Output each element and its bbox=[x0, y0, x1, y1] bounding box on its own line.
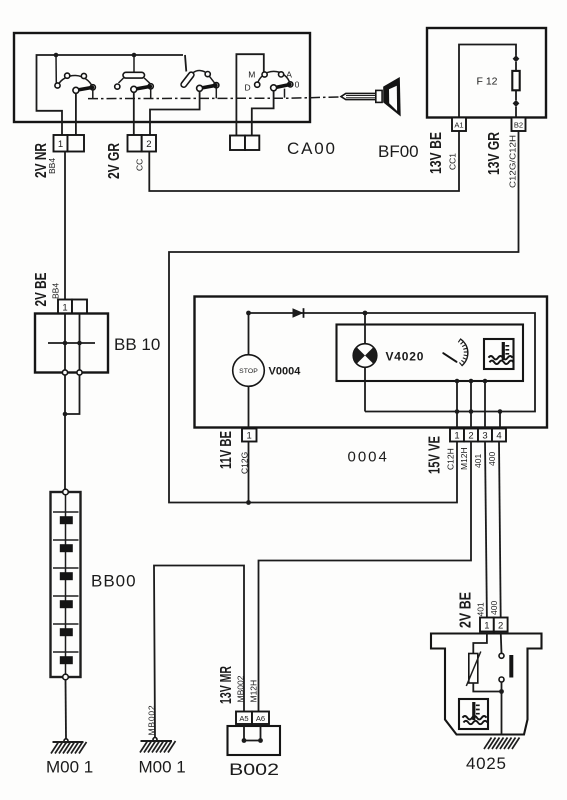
node on bus above switch 2 bbox=[132, 53, 137, 58]
svg-text:CA00: CA00 bbox=[287, 139, 337, 158]
switch S3 pivot bbox=[197, 85, 203, 91]
switch S3 contact circles bbox=[205, 72, 219, 88]
svg-text:2V BE: 2V BE bbox=[458, 592, 475, 628]
0004 connector pin 1 (single) bbox=[242, 429, 257, 442]
switch S4 pivot wire to connector bbox=[252, 91, 274, 136]
wire 400 from 0004 pin 4 to 4025 pin 2 bbox=[499, 442, 501, 618]
connector cell 2 (CA00 pin 2) bbox=[142, 135, 156, 152]
wire 11V BE from 0004 pin 1 to junction bbox=[248, 442, 250, 503]
key bow hole bbox=[389, 86, 397, 111]
4025 connector pin 2 bbox=[494, 618, 508, 632]
fuse lower lead bbox=[515, 90, 517, 100]
BF00 internal frame bbox=[459, 45, 516, 118]
thermistor lower lead bbox=[473, 683, 501, 692]
wire BB10 to BB00 bbox=[65, 375, 80, 489]
B002 internal stubs bbox=[244, 724, 261, 741]
svg-text:1: 1 bbox=[247, 431, 252, 442]
diode D1 bbox=[293, 308, 304, 318]
gauge scale ticks bbox=[458, 339, 468, 366]
junction nodes on internal wire bbox=[455, 409, 460, 414]
svg-text:M12H: M12H bbox=[249, 680, 259, 703]
svg-text:A5: A5 bbox=[239, 714, 248, 723]
thermistor diagonal arrow bbox=[466, 652, 481, 687]
battery junction box BB10 bbox=[35, 314, 108, 373]
switch contact lower bbox=[499, 677, 504, 682]
coolant temperature sensor 4025 body bbox=[431, 634, 542, 735]
fuse box BF00 bbox=[427, 28, 546, 118]
switch S3 pivot wire to connector 2 bbox=[150, 91, 200, 135]
wire 401 from 0004 pin 3 to 4025 pin 1 bbox=[485, 442, 487, 618]
svg-text:1: 1 bbox=[62, 303, 67, 314]
svg-text:A1: A1 bbox=[454, 120, 463, 129]
svg-text:B002: B002 bbox=[229, 760, 279, 779]
4025 pin 1 internal wire to thermistor bbox=[473, 632, 487, 654]
4025 coolant temperature icon box bbox=[459, 699, 488, 729]
gauge scale arc bbox=[460, 339, 468, 366]
switch S3 contact arc bbox=[193, 71, 216, 86]
ground M001 (second) wire MB002 bbox=[154, 566, 244, 740]
wire 13V GR from B2 to 0004 connectors bbox=[169, 131, 519, 503]
switch S2 feed wire bbox=[133, 55, 135, 72]
thermometer ticks bbox=[505, 346, 509, 354]
connector cell 1 (CA00 pin 1) bbox=[54, 135, 68, 152]
junction node on C12G/C12H wire bbox=[246, 500, 251, 505]
svg-text:2: 2 bbox=[146, 139, 151, 150]
switch S4 mechanical link bbox=[284, 89, 286, 98]
svg-text:C12G/C12H: C12G/C12H bbox=[508, 135, 518, 188]
splice unit B002 box bbox=[228, 726, 281, 755]
BB10 connector cell 1 bbox=[58, 300, 72, 314]
ground M001 terminal ring bbox=[64, 739, 68, 743]
switch S4 contact circles D M A 0 bbox=[255, 72, 293, 87]
svg-text:V4020: V4020 bbox=[386, 350, 425, 364]
STOP warning lamp V0004 bbox=[233, 355, 265, 387]
connector pin B2 bbox=[512, 118, 526, 132]
BB10 internal wires bbox=[48, 314, 95, 373]
thermometer stem bbox=[502, 342, 505, 360]
svg-text:STOP: STOP bbox=[239, 368, 258, 375]
svg-text:3: 3 bbox=[482, 431, 487, 442]
svg-text:BF00: BF00 bbox=[378, 142, 419, 161]
svg-text:2: 2 bbox=[498, 620, 503, 631]
node below fuse bbox=[513, 100, 520, 107]
switch S2 wiper arm bbox=[136, 86, 151, 89]
svg-text:M12H: M12H bbox=[459, 447, 469, 470]
svg-text:4: 4 bbox=[496, 431, 501, 442]
svg-text:13V GR: 13V GR bbox=[486, 132, 503, 175]
ground M001 hatching bbox=[51, 742, 87, 754]
module pin nodes on inner box bbox=[455, 379, 460, 384]
switch S1 contact circles bbox=[55, 73, 96, 90]
V4020 lamp cross fill bbox=[353, 347, 376, 364]
lamp V4020 lower lead bbox=[364, 367, 366, 411]
wire bus inside CA00 bbox=[37, 55, 184, 135]
svg-text:15V VE: 15V VE bbox=[427, 436, 444, 474]
svg-text:1: 1 bbox=[454, 431, 459, 442]
gauge needle bbox=[443, 353, 456, 362]
switch S2 left branch bbox=[119, 78, 124, 83]
BB00 top terminal bbox=[63, 489, 69, 495]
switch S1 pivot wire to connector bbox=[75, 93, 77, 135]
switch lower lead bbox=[501, 682, 503, 692]
switch S2 contact circles bbox=[115, 84, 154, 89]
ground M001 bar bbox=[53, 741, 84, 743]
ground M001 (second) hatching bbox=[140, 741, 176, 753]
BB10 output terminals bbox=[62, 370, 67, 375]
BB00 bottom terminal bbox=[63, 674, 69, 680]
switch S2 right branch bbox=[144, 78, 150, 83]
mechanical dash-dot linkage line bbox=[88, 97, 341, 99]
svg-text:BB4: BB4 bbox=[47, 158, 57, 174]
svg-text:M00 1: M00 1 bbox=[139, 758, 186, 777]
4025 pin 2 internal wire to switch bbox=[500, 632, 503, 654]
switch S3 lever pill bbox=[180, 71, 195, 88]
connector cell (CA00 pin 1 mate) bbox=[68, 135, 85, 152]
ignition switch unit CA00 box bbox=[14, 33, 310, 122]
svg-text:13V MR: 13V MR bbox=[218, 666, 235, 704]
thermistor body bbox=[469, 654, 478, 684]
svg-text:4025: 4025 bbox=[466, 754, 507, 773]
svg-text:0004: 0004 bbox=[348, 449, 389, 466]
key collar bbox=[376, 90, 382, 102]
control unit 0004 box bbox=[195, 297, 548, 428]
battery BB00 box bbox=[51, 492, 81, 677]
svg-text:MB002: MB002 bbox=[147, 705, 157, 736]
warning lamp V4020 bbox=[353, 344, 377, 368]
switch S2 lever pill bbox=[123, 72, 145, 78]
ground M001 (second) bar bbox=[141, 740, 173, 742]
wire 2V NR from CA00 pin 1 to BB10 bbox=[64, 152, 66, 300]
key blade grooves bbox=[346, 96, 376, 98]
ignition key blade bbox=[341, 93, 376, 99]
svg-text:A: A bbox=[286, 70, 292, 80]
svg-text:D: D bbox=[245, 82, 251, 92]
svg-text:F 12: F 12 bbox=[477, 76, 498, 88]
switch S3 mechanical link bbox=[215, 88, 217, 99]
switch S4 frame bbox=[236, 54, 263, 135]
switch S4 contact arc bbox=[257, 71, 290, 84]
node above fuse bbox=[513, 55, 520, 62]
4025 coolant wave lines bbox=[463, 716, 488, 724]
4025 connector pin 1 bbox=[480, 618, 494, 632]
inner module box bbox=[337, 325, 524, 382]
switch S1 mechanical link bbox=[92, 90, 94, 99]
B002 connector pin A5 bbox=[236, 712, 252, 725]
coolant wave lines bbox=[489, 356, 514, 364]
connector cells under switch S4 bbox=[230, 136, 245, 151]
svg-text:B2: B2 bbox=[514, 120, 523, 129]
svg-text:13V BE: 13V BE bbox=[428, 132, 445, 174]
wire CC from CA00 pin 2 to BF00 pin A1 bbox=[149, 131, 459, 191]
node on bus above switch 1 bbox=[54, 53, 59, 58]
svg-text:2: 2 bbox=[468, 431, 473, 442]
STOP lamp upper lead bbox=[248, 313, 250, 355]
svg-text:M: M bbox=[248, 70, 255, 80]
wire M12H from 0004 pin 2 to B002 pin A6 bbox=[259, 442, 472, 712]
BB00 cell plates bbox=[53, 512, 79, 664]
switch S2 mechanical link bbox=[150, 89, 152, 99]
4025 thermometer stem bbox=[472, 702, 475, 720]
svg-text:2V BE: 2V BE bbox=[33, 273, 50, 307]
connector cell (CA00 pin 2 mate) bbox=[128, 135, 142, 152]
BB00 center conductor bbox=[65, 494, 67, 675]
switch S1 pivot bbox=[73, 87, 79, 93]
junction node below BB10 bbox=[63, 412, 68, 417]
svg-text:11V BE: 11V BE bbox=[218, 431, 235, 469]
junction node above lamp V4020 bbox=[363, 311, 368, 316]
switch S1 feed wire bbox=[55, 55, 57, 83]
wire BB00 to ground bbox=[65, 680, 68, 739]
switch S4 pivot bbox=[271, 85, 277, 91]
switch S3 feed wire from bus bbox=[185, 55, 186, 72]
svg-text:C12H: C12H bbox=[446, 448, 456, 470]
switch S2 pivot wire to connector bbox=[133, 92, 135, 135]
junction node in 4025 bbox=[499, 689, 504, 694]
B002 internal nodes bbox=[242, 738, 247, 743]
svg-text:2V GR: 2V GR bbox=[106, 143, 123, 179]
svg-text:1: 1 bbox=[484, 620, 489, 631]
svg-text:BB00: BB00 bbox=[91, 572, 137, 591]
svg-text:BB 10: BB 10 bbox=[114, 335, 160, 354]
switch S3 wiper arm bbox=[201, 85, 216, 88]
svg-text:1: 1 bbox=[58, 139, 63, 150]
svg-text:CC: CC bbox=[135, 159, 145, 171]
connector pin A1 bbox=[452, 118, 466, 132]
svg-text:401: 401 bbox=[473, 454, 483, 468]
switch S1 wiper arm bbox=[78, 87, 93, 90]
svg-text:V0004: V0004 bbox=[269, 366, 302, 378]
ground M001 (second) terminal ring bbox=[153, 738, 157, 742]
pin 4 lead bbox=[499, 412, 501, 429]
svg-text:400: 400 bbox=[489, 601, 499, 615]
svg-text:CC1: CC1 bbox=[448, 153, 458, 170]
BB10 connector cell mate bbox=[72, 300, 87, 314]
B002 connector pin A6 bbox=[252, 712, 269, 725]
module pin leads to connector bbox=[457, 381, 485, 429]
switch thermal actuator bar bbox=[509, 655, 513, 678]
0004 connector pins 1-4 bbox=[450, 429, 464, 442]
lamp V4020 upper lead bbox=[364, 313, 366, 344]
switch S4 wiper arm bbox=[275, 85, 290, 88]
svg-text:400: 400 bbox=[487, 452, 497, 466]
junction node above STOP lamp bbox=[246, 311, 251, 316]
BB10 junction nodes bbox=[63, 341, 68, 346]
4025 case ground hatching bbox=[484, 738, 520, 750]
svg-text:401: 401 bbox=[476, 602, 486, 616]
coolant temperature icon box bbox=[484, 339, 514, 369]
switch contact upper bbox=[499, 653, 504, 658]
switch S1 contact arc bbox=[58, 76, 93, 88]
svg-text:MB002: MB002 bbox=[236, 675, 246, 702]
fuse F12 bbox=[512, 71, 519, 90]
key bow bbox=[383, 77, 401, 117]
svg-text:0: 0 bbox=[295, 79, 300, 89]
svg-text:BB4: BB4 bbox=[51, 283, 61, 299]
switch S2 pivot bbox=[131, 86, 137, 92]
svg-text:A6: A6 bbox=[256, 714, 265, 723]
svg-text:M00 1: M00 1 bbox=[46, 758, 93, 777]
wire node to fuse bbox=[515, 62, 517, 71]
fuse to B2 bbox=[515, 107, 517, 118]
STOP lamp lower lead to pin 1 bbox=[248, 386, 250, 428]
4025 ground lead bbox=[501, 692, 503, 735]
4025 thermometer ticks bbox=[476, 705, 480, 713]
internal supply wire with right leg bbox=[249, 313, 536, 412]
